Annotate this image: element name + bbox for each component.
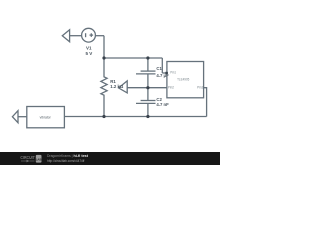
svg-text:4.7 μF: 4.7 μF <box>156 73 169 78</box>
svg-text:vibrator: vibrator <box>40 115 52 119</box>
svg-text:V1: V1 <box>86 45 92 50</box>
svg-text:1.2 kΩ: 1.2 kΩ <box>110 84 124 89</box>
svg-text:5 V: 5 V <box>86 51 93 56</box>
svg-text:Pin3: Pin3 <box>197 86 203 90</box>
svg-text:C1: C1 <box>156 66 162 71</box>
svg-text:Pin1: Pin1 <box>170 71 176 75</box>
svg-text:TLE4905: TLE4905 <box>177 78 189 82</box>
svg-text:4.7 nF: 4.7 nF <box>156 102 169 107</box>
svg-text:Pin2: Pin2 <box>168 86 174 90</box>
